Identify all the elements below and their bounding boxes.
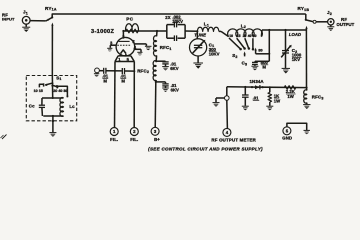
svg-text:20 40 80: 20 40 80 [53,89,67,93]
svg-text:M: M [103,78,107,83]
svg-text:FIL.: FIL. [130,137,138,142]
svg-text:LOAD: LOAD [289,32,301,37]
svg-text:PC: PC [126,16,134,21]
svg-text:1W: 1W [274,98,280,103]
svg-text:10KV: 10KV [209,52,220,57]
svg-text:10: 10 [229,34,233,38]
svg-text:M: M [262,65,266,70]
svg-text:2X: 2X [165,15,171,20]
svg-text:(SEE CONTROL CIRCUIT AND POWER: (SEE CONTROL CIRCUIT AND POWER SUPPLY) [148,146,263,151]
svg-text:40: 40 [248,34,252,38]
svg-text:80: 80 [253,34,257,38]
svg-text:6KV: 6KV [170,66,178,71]
svg-text:RF OUTPUT METER: RF OUTPUT METER [211,137,256,142]
svg-text:FIL.: FIL. [110,137,118,142]
svg-text:TUNE: TUNE [194,32,206,37]
svg-text:20: 20 [243,34,247,38]
svg-text:1W: 1W [287,94,293,99]
svg-text:Lc: Lc [69,104,75,109]
svg-text:OUTPUT: OUTPUT [337,22,355,27]
svg-text:.01: .01 [253,96,259,101]
svg-text:1KV: 1KV [292,57,300,62]
svg-text:15: 15 [237,34,241,38]
svg-text:10 15: 10 15 [34,89,43,93]
svg-text:3-1000Z: 3-1000Z [91,29,115,35]
svg-text:INPUT: INPUT [2,17,15,22]
svg-text:1N34A: 1N34A [250,79,265,84]
svg-text:GND: GND [282,136,292,141]
svg-text:80: 80 [258,48,262,52]
svg-text:B+: B+ [154,137,160,142]
svg-text:M: M [121,78,125,83]
svg-text:6KV: 6KV [171,87,179,92]
svg-text:Cc: Cc [29,103,35,108]
